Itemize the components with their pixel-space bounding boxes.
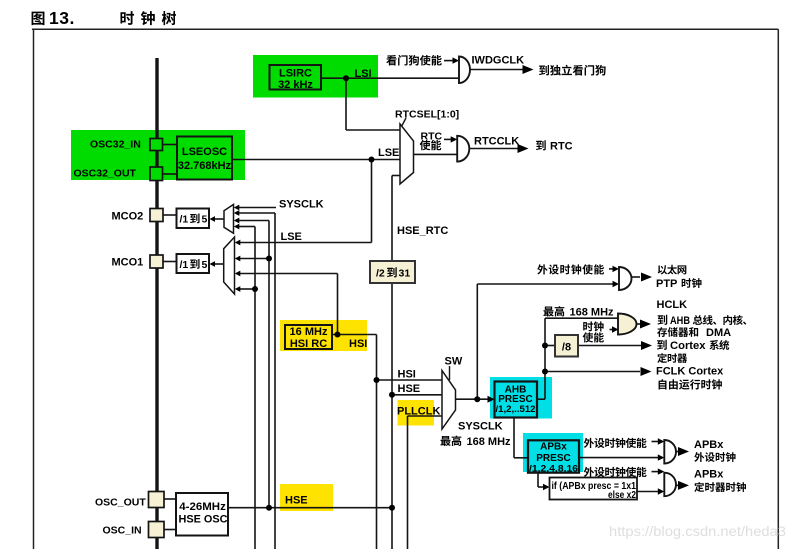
svg-text:Cortex: Cortex	[670, 340, 706, 352]
svg-text:PTP: PTP	[656, 278, 677, 290]
wire if out	[637, 491, 658, 493]
wire APB1 enable arrow	[652, 441, 659, 443]
pin OSC32_OUT	[150, 167, 163, 181]
svg-text:RTC: RTC	[550, 141, 573, 153]
svg-text:LSE: LSE	[281, 231, 302, 243]
wire RTC mux out	[414, 153, 458, 155]
mux MCO2	[224, 204, 234, 233]
svg-text:SYSCLK: SYSCLK	[458, 421, 503, 433]
wire watchdog-enable arrow	[444, 60, 453, 62]
highlight cyan AHB	[490, 377, 552, 419]
svg-text:https://blog.csdn.net/heda3: https://blog.csdn.net/heda3	[609, 523, 786, 539]
wire APB1 out	[676, 451, 679, 453]
svg-text:SW: SW	[445, 356, 463, 368]
svg-text:OSC_IN: OSC_IN	[103, 525, 142, 537]
label max168@sw cjk	[440, 436, 461, 446]
oscillator HSI RC box	[285, 325, 332, 349]
svg-text:HSE OSC: HSE OSC	[179, 514, 228, 526]
svg-text:APBx: APBx	[694, 439, 724, 451]
label to-RTC(cjk)	[536, 140, 546, 150]
mux MCO1	[224, 237, 235, 294]
node HSE-SW junction	[389, 392, 395, 398]
wire IWDGCLK out	[470, 69, 523, 71]
node LSE junction	[369, 157, 375, 163]
label timer	[657, 353, 687, 363]
node FCLK junction	[542, 369, 548, 375]
wire MCO1 in2	[240, 258, 269, 260]
wire SW select	[449, 366, 451, 380]
svg-text:PRESC: PRESC	[536, 453, 570, 464]
node HSE-bus junction	[266, 505, 272, 511]
wire MCO1 div out	[215, 263, 224, 265]
label periph-enable 1	[584, 438, 647, 448]
svg-text:APBx: APBx	[694, 469, 724, 481]
divider /2to31 box	[370, 261, 415, 283]
svg-text:OSC32_OUT: OSC32_OUT	[74, 168, 137, 180]
svg-text:32.768kHz: 32.768kHz	[178, 160, 232, 172]
label /1to5 b2	[190, 259, 200, 269]
and-gate ethernet PTP	[619, 267, 632, 290]
node SYSCLK junction	[474, 396, 480, 402]
svg-text:RTC: RTC	[421, 131, 443, 143]
svg-text:SYSCLK: SYSCLK	[279, 199, 324, 211]
svg-text:4-26MHz: 4-26MHz	[179, 501, 226, 513]
svg-text:MCO2: MCO2	[112, 211, 144, 223]
wire PLLCLK to SW	[408, 416, 443, 549]
label periph-enable PTP	[537, 264, 604, 274]
svg-text:LSIRC: LSIRC	[279, 68, 312, 80]
node div8 junction	[542, 343, 548, 349]
svg-text:APBx: APBx	[540, 442, 567, 453]
label to-Cortex 3	[709, 340, 729, 350]
svg-text:DMA: DMA	[706, 327, 731, 339]
label /1to5 a2	[190, 213, 200, 223]
svg-text:168 MHz: 168 MHz	[570, 307, 615, 319]
prescaler APBx box	[528, 440, 579, 472]
wire HSI out	[332, 335, 377, 549]
and-gate APBx timer	[664, 473, 676, 497]
label to-Cortex 1	[657, 340, 667, 350]
wire SYSCLK out	[456, 398, 489, 400]
wire SYSCLK stub	[239, 207, 276, 209]
wire APB2 enable arrow	[652, 471, 659, 473]
divider /8 box	[555, 335, 578, 357]
svg-text:/1: /1	[180, 214, 189, 226]
and-gate IWDG	[459, 57, 470, 84]
svg-text:/2: /2	[376, 268, 385, 280]
wire HCLK enable arrow	[610, 329, 614, 331]
svg-text:RTCSEL[1:0]: RTCSEL[1:0]	[395, 109, 459, 121]
wire PTP out	[632, 276, 641, 278]
wire AHB to APBx	[514, 418, 528, 458]
if-APBx-presc box	[550, 478, 638, 500]
wire PTP enable arrow	[609, 268, 614, 270]
node MCO1-PLL junction	[252, 286, 258, 292]
arrowheads small inputs	[210, 57, 665, 494]
svg-text:16 MHz: 16 MHz	[290, 326, 328, 338]
highlight yellow HSI RC	[280, 320, 367, 351]
wire mux bus HSI	[239, 213, 275, 549]
svg-text:else x2: else x2	[608, 490, 636, 501]
svg-text:5: 5	[202, 259, 208, 271]
pin MCO2	[150, 209, 163, 222]
svg-text:13.: 13.	[49, 8, 75, 28]
svg-text:HSI: HSI	[349, 338, 367, 350]
svg-text:OSC_OUT: OSC_OUT	[95, 497, 146, 509]
arrowheads outputs	[518, 65, 690, 490]
chip boundary line	[155, 58, 158, 549]
svg-text:HSI: HSI	[398, 369, 416, 381]
wire div8 in	[545, 345, 555, 347]
svg-text:/8: /8	[562, 342, 571, 354]
wire MCO1 in4	[240, 288, 255, 290]
wire RTC-enable arrow	[444, 138, 452, 140]
node LSI junction	[343, 75, 349, 81]
svg-text:/1,2,..512: /1,2,..512	[496, 404, 536, 415]
wire MCO2 pin	[163, 214, 177, 216]
highlight yellow HSE	[280, 484, 333, 511]
svg-text:168 MHz: 168 MHz	[467, 436, 512, 448]
wire APB2 out	[676, 484, 679, 486]
wire MCO2 div out	[215, 218, 225, 220]
divider /1to5 MCO2 box	[177, 209, 210, 229]
wire if-branch	[538, 473, 544, 487]
wire mux bus HSE	[239, 221, 269, 508]
svg-text:IWDGCLK: IWDGCLK	[472, 55, 525, 67]
svg-text:HCLK: HCLK	[657, 299, 688, 311]
label to-IWDG	[539, 65, 606, 76]
and-gate APBx peripheral	[664, 440, 676, 464]
svg-text:HSE: HSE	[398, 383, 421, 395]
wire OSC32 pins	[163, 145, 178, 175]
svg-text:RTCCLK: RTCCLK	[474, 136, 519, 148]
wire HSE_RTC	[392, 176, 400, 549]
highlight yellow PLLCLK	[398, 400, 435, 426]
wire OSC pins	[164, 499, 176, 530]
node HSI-SW junction	[374, 377, 380, 383]
svg-text:LSI: LSI	[355, 68, 372, 80]
wire FCLK	[545, 371, 640, 373]
highlight cyan APBx	[523, 433, 583, 472]
svg-text:32 kHz: 32 kHz	[278, 79, 313, 91]
svg-text:HSI RC: HSI RC	[290, 338, 327, 350]
wire HCLK out	[637, 323, 642, 325]
label RTC-enable	[420, 140, 442, 150]
label max168@hclk cjk	[543, 306, 564, 316]
wire RTCSEL select	[402, 118, 407, 127]
oscillator HSE OSC box	[176, 493, 228, 536]
wire HSI to SW	[377, 379, 443, 381]
highlight green OSC32	[71, 130, 245, 180]
svg-text:HSE_RTC: HSE_RTC	[397, 225, 448, 237]
prescaler AHB box	[495, 382, 538, 418]
wire HSE osc	[228, 507, 392, 509]
label enable@hclk	[583, 332, 604, 342]
wire MCO1 pin	[163, 261, 177, 263]
highlight green LSI	[253, 55, 378, 98]
svg-text:OSC32_IN: OSC32_IN	[90, 139, 141, 151]
label APBx periph clock	[694, 452, 735, 462]
node HSE-RTC junction	[389, 505, 395, 511]
svg-text:/1: /1	[180, 259, 189, 271]
svg-text:MCO1: MCO1	[112, 257, 144, 269]
svg-text:/1,2,4,8,16: /1,2,4,8,16	[529, 464, 578, 475]
mux SW	[442, 371, 456, 430]
oscillator LSEOSC box	[177, 137, 232, 180]
wire div8 out	[578, 345, 641, 347]
label clock@hclk	[583, 321, 603, 331]
svg-text:31: 31	[399, 268, 411, 280]
pin OSC32_IN	[150, 139, 163, 151]
svg-text:FCLK Cortex: FCLK Cortex	[656, 366, 724, 378]
pin OSC_IN	[149, 522, 165, 538]
label mem-DMA cjk	[657, 327, 698, 337]
svg-text:PLLCLK: PLLCLK	[397, 406, 440, 418]
label to-AHB 3	[693, 315, 746, 325]
wire AHB out HCLK	[538, 318, 619, 399]
label /2to31 2	[387, 267, 397, 277]
node MCO1-HSE junction	[266, 256, 272, 262]
svg-text:LSE: LSE	[378, 147, 399, 159]
label APBx timer clock	[694, 482, 746, 492]
svg-text:HSE: HSE	[285, 495, 308, 507]
oscillator LSIRC box	[270, 65, 322, 90]
label free-running clock	[659, 379, 722, 389]
label periph-enable 2	[584, 467, 647, 477]
wire SYSCLK up to PTP gate	[477, 284, 613, 399]
divider /1to5 MCO1 box	[177, 254, 210, 273]
wire RTCCLK out	[469, 148, 518, 150]
svg-text:AHB: AHB	[670, 315, 690, 327]
title 图	[32, 12, 45, 26]
label ethernet	[658, 265, 687, 275]
title 时钟树	[120, 11, 176, 25]
pin OSC_OUT	[149, 492, 165, 508]
and-gate RTC	[457, 136, 469, 162]
label PTP cjk	[682, 278, 702, 288]
pin MCO1	[150, 255, 163, 268]
label to-AHB 1	[658, 315, 668, 325]
node HSI out junction	[335, 332, 341, 338]
wire LSI	[321, 78, 459, 130]
wire LSE	[232, 160, 400, 243]
wire APBx out	[577, 457, 658, 459]
wire MCO1 in3 HSI	[240, 274, 338, 335]
label watchdog-enable	[386, 55, 441, 66]
svg-text:LSEOSC: LSEOSC	[182, 146, 227, 158]
mux RTCSEL	[400, 124, 414, 184]
svg-text:5: 5	[202, 214, 208, 226]
and-gate HCLK	[618, 314, 637, 335]
wire mux bus PLL	[239, 227, 255, 549]
wire HSE to SW	[392, 394, 442, 396]
